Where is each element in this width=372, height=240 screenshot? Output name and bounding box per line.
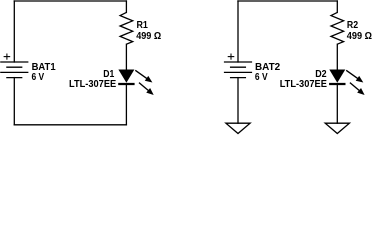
svg-text:LTL-307EE: LTL-307EE [69, 79, 116, 90]
svg-text:R1: R1 [137, 20, 149, 31]
svg-text:6 V: 6 V [32, 72, 45, 83]
svg-text:6 V: 6 V [255, 72, 268, 83]
svg-text:LTL-307EE: LTL-307EE [280, 79, 327, 90]
svg-text:499 Ω: 499 Ω [136, 31, 161, 42]
svg-text:R2: R2 [347, 20, 358, 31]
svg-text:499 Ω: 499 Ω [347, 31, 372, 42]
